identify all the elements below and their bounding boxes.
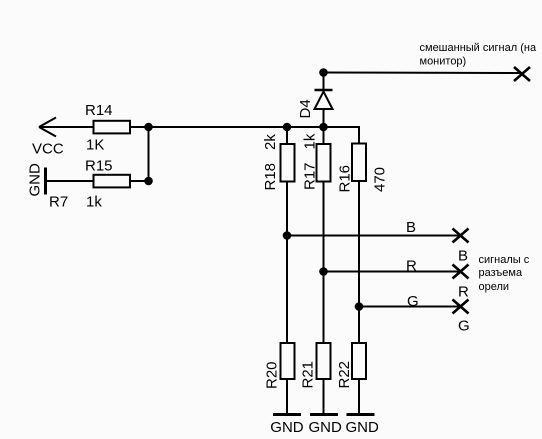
- svg-text:R16: R16: [337, 165, 354, 193]
- node junction B: [283, 231, 292, 240]
- wire B: [287, 235, 461, 237]
- node junction: [144, 123, 153, 132]
- node junction: [319, 123, 328, 132]
- wire R: [324, 271, 461, 273]
- resistor R16: [352, 144, 366, 182]
- svg-text:сигналы с: сигналы с: [479, 254, 530, 266]
- wire (main bus): [149, 126, 360, 128]
- node junction: [144, 177, 153, 186]
- wire elbow to R16: [358, 126, 360, 144]
- svg-text:1k: 1k: [302, 133, 319, 149]
- connector X (G): [453, 300, 469, 314]
- svg-text:GND: GND: [309, 419, 343, 436]
- resistor R22: [352, 343, 366, 379]
- svg-text:R20: R20: [264, 361, 281, 389]
- svg-text:VCC: VCC: [32, 141, 64, 158]
- wire: [46, 180, 94, 182]
- connector X (B): [453, 229, 469, 243]
- wire: [286, 379, 288, 415]
- wire: [323, 379, 325, 415]
- connector X (R): [453, 265, 469, 279]
- wire to monitor: [324, 72, 523, 75]
- wire: [130, 180, 149, 182]
- svg-text:GND: GND: [270, 419, 304, 436]
- ground GND3: [347, 413, 375, 416]
- wire: [323, 182, 325, 344]
- diode D4: [315, 73, 333, 128]
- svg-text:орели: орели: [479, 281, 510, 293]
- svg-text:R15: R15: [85, 158, 113, 175]
- wire: [39, 126, 94, 128]
- svg-text:2k: 2k: [262, 134, 279, 150]
- svg-text:R7: R7: [49, 194, 68, 211]
- resistor R15: [94, 175, 131, 188]
- wire: [358, 181, 360, 343]
- connector X (monitor): [514, 67, 530, 81]
- svg-text:G: G: [407, 293, 419, 310]
- svg-text:B: B: [458, 248, 468, 265]
- svg-text:470: 470: [372, 167, 389, 192]
- ground GND1: [273, 413, 301, 416]
- node junction: [283, 123, 292, 132]
- svg-text:R18: R18: [262, 163, 279, 191]
- node junction R: [319, 267, 328, 276]
- svg-text:R21: R21: [300, 361, 317, 389]
- resistor R18: [286, 127, 288, 144]
- node junction: [319, 68, 328, 77]
- VCC arrow: [39, 118, 56, 137]
- svg-text:GND: GND: [27, 163, 44, 197]
- svg-text:G: G: [458, 318, 470, 335]
- svg-text:R: R: [406, 258, 417, 275]
- svg-text:1K: 1K: [86, 137, 104, 154]
- svg-text:R14: R14: [85, 102, 113, 119]
- wire: [130, 126, 149, 128]
- svg-text:разъема: разъема: [479, 267, 523, 279]
- svg-text:B: B: [406, 219, 416, 236]
- wire G: [359, 306, 461, 308]
- ground (left): [44, 168, 47, 195]
- ground GND2: [310, 413, 338, 416]
- wire: [148, 127, 150, 181]
- wire: [358, 379, 360, 415]
- resistor R20: [281, 343, 295, 379]
- resistor R17: [323, 127, 325, 144]
- svg-text:GND: GND: [346, 419, 380, 436]
- svg-text:R: R: [458, 284, 469, 301]
- svg-text:D4: D4: [297, 99, 314, 118]
- svg-text:монитор): монитор): [420, 56, 467, 68]
- resistor R14: [94, 121, 131, 134]
- svg-text:смешанный сигнал (на: смешанный сигнал (на: [420, 42, 537, 54]
- wire: [286, 182, 288, 344]
- svg-text:1k: 1k: [86, 194, 102, 211]
- node junction G: [355, 302, 364, 311]
- svg-text:R22: R22: [336, 361, 353, 389]
- svg-text:R17: R17: [302, 162, 319, 190]
- resistor R21: [317, 343, 331, 379]
